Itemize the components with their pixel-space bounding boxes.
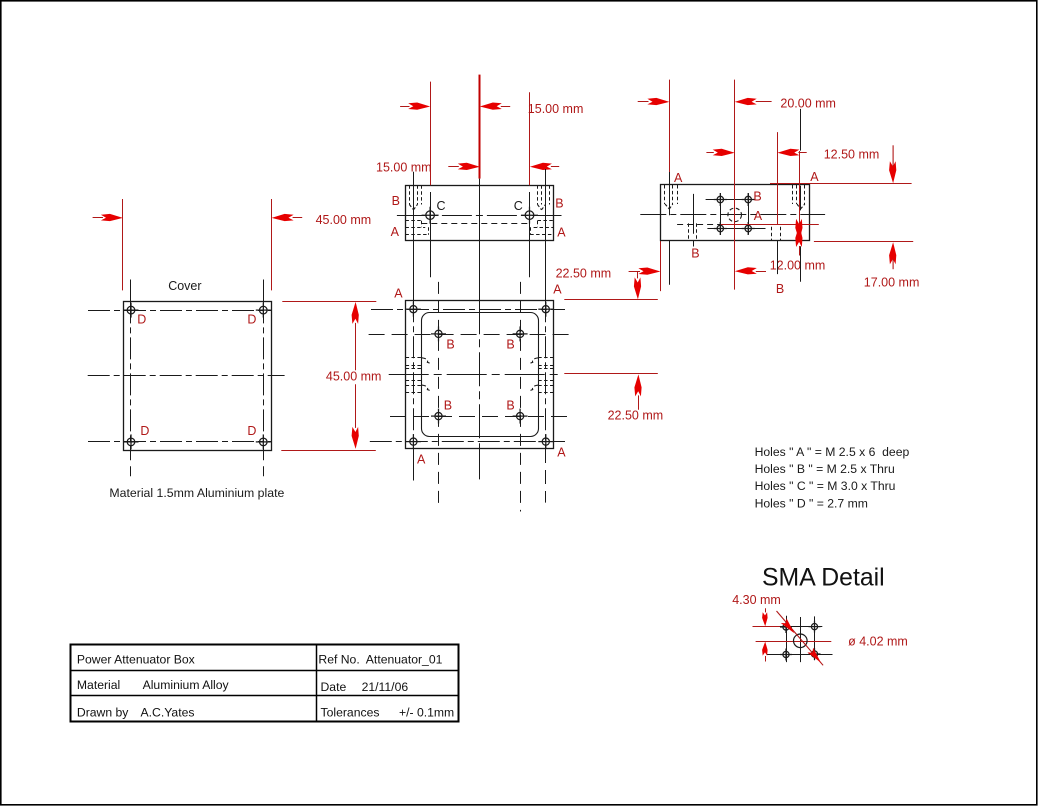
cover width dim line + arrows	[93, 217, 103, 219]
svg-text:12.50 mm: 12.50 mm	[824, 148, 880, 162]
svg-text:Aluminium Alloy: Aluminium Alloy	[143, 678, 230, 692]
projection line centre column	[479, 179, 481, 301]
centerline hole B left column	[438, 282, 440, 508]
SMA flange hole top-left	[714, 193, 727, 206]
dim 12.50 line	[706, 152, 713, 154]
svg-text:B: B	[506, 399, 514, 413]
svg-text:D: D	[247, 424, 256, 438]
svg-text:A: A	[391, 225, 400, 239]
svg-text:A: A	[810, 170, 819, 184]
svg-text:Material 1.5mm Aluminium plate: Material 1.5mm Aluminium plate	[109, 486, 284, 500]
arrow up 4.30	[762, 642, 768, 656]
svg-text:45.00 mm: 45.00 mm	[316, 213, 372, 227]
svg-text:22.50 mm: 22.50 mm	[556, 267, 612, 281]
svg-text:D: D	[137, 313, 146, 327]
title block column line	[316, 645, 318, 721]
svg-text:Ref No. Attenuator_01: Ref No. Attenuator_01	[318, 653, 442, 667]
hole A plan bottom-left	[406, 434, 421, 449]
dim 22.50 upper: horizontal line+arrow	[630, 271, 640, 273]
leader line 20.00 text	[800, 109, 802, 151]
SMA detail top row ext line red	[753, 626, 780, 628]
svg-text:A: A	[394, 287, 403, 301]
hole B plan bottom-right	[513, 409, 528, 424]
cover horizontal centerline mid	[88, 375, 285, 377]
svg-text:Holes " A " = M 2.5 x 6 deep: Holes " A " = M 2.5 x 6 deep	[755, 445, 910, 459]
svg-text:B: B	[444, 399, 452, 413]
svg-text:D: D	[140, 424, 149, 438]
svg-text:A: A	[557, 226, 566, 240]
SMA flange hole bottom-left	[714, 222, 727, 235]
svg-text:Holes " B " = M 2.5 x Thru: Holes " B " = M 2.5 x Thru	[755, 462, 895, 476]
svg-text:Power Attenuator Box: Power Attenuator Box	[77, 653, 195, 667]
svg-text:C: C	[514, 199, 523, 213]
svg-text:A: A	[417, 453, 426, 467]
svg-text:45.00 mm: 45.00 mm	[326, 369, 382, 383]
arrow up to hole row line	[795, 225, 802, 247]
projection lines below side view	[669, 241, 671, 285]
svg-text:Material: Material	[77, 678, 120, 692]
front view hidden tapped hole top-left	[409, 185, 411, 204]
svg-text:Drawn by: Drawn by	[77, 706, 129, 720]
svg-text:B: B	[776, 282, 784, 296]
centerline hole B right column	[520, 282, 522, 512]
hole B plan top-left	[431, 326, 446, 341]
arrow up to centreline ext	[634, 374, 641, 396]
svg-text:Holes " D " = 2.7 mm: Holes " D " = 2.7 mm	[755, 496, 868, 510]
hole A plan top-right	[538, 302, 553, 317]
cover width dim extension lines	[122, 199, 124, 290]
hole B centerline left	[693, 194, 695, 234]
side view box outline	[661, 185, 810, 241]
title block row line 2	[71, 695, 459, 697]
svg-text:Cover: Cover	[168, 279, 201, 293]
svg-text:Holes " C " = M 3.0 x Thru: Holes " C " = M 3.0 x Thru	[755, 479, 896, 493]
hole row centerline top (cover+plan)	[88, 310, 271, 312]
plan height dim top extension line	[282, 301, 376, 303]
side hidden cavity line	[677, 224, 768, 226]
arrow up end 45.00 vertical	[352, 302, 359, 324]
ext line hole C right	[529, 92, 531, 185]
SMA detail centre line red	[756, 641, 832, 643]
ext line hole column right	[777, 132, 779, 224]
SMA diameter leader diagonal	[777, 611, 824, 665]
hole centerline left	[669, 172, 671, 216]
front view box outline	[406, 186, 554, 241]
title block row line 1	[71, 670, 459, 672]
plan height dim bottom extension line	[281, 450, 376, 452]
SMA detail hole top-left	[780, 621, 792, 633]
svg-text:17.00 mm: 17.00 mm	[864, 275, 920, 289]
svg-text:SMA Detail: SMA Detail	[762, 565, 885, 592]
projection line hole A right column	[545, 169, 547, 300]
svg-text:ø 4.02 mm: ø 4.02 mm	[848, 635, 908, 649]
plan hidden SMA features left wall	[406, 357, 422, 359]
dim 22.50 left arrow line	[629, 271, 640, 273]
dim 15.00 upper line	[400, 106, 409, 108]
plan B row centerline top	[369, 334, 573, 336]
arrow down to plan top ext	[634, 277, 641, 299]
SMA detail hole bottom-right	[809, 648, 821, 660]
SMA detail hole bottom-left	[780, 649, 792, 661]
ext line SMA centre column	[734, 80, 736, 290]
hole row centerline bottom (cover+plan)	[88, 441, 271, 443]
front view hidden SMA bore left	[405, 220, 421, 222]
svg-text:Tolerances: Tolerances	[321, 706, 380, 720]
svg-text:20.00 mm: 20.00 mm	[780, 97, 836, 111]
SMA detail flange cross lines	[779, 626, 822, 628]
arrow down to side bottom	[795, 219, 802, 241]
title block outer frame	[71, 645, 459, 722]
side hole row extension line	[721, 224, 819, 226]
front view hidden SMA bore right	[538, 220, 554, 222]
cover vertical centerline right	[263, 280, 265, 302]
svg-text:15.00 mm: 15.00 mm	[528, 102, 584, 116]
plan B row centerline bottom	[390, 416, 573, 418]
side hidden holes bottom-left	[688, 223, 690, 240]
hole D top-right	[256, 303, 271, 318]
arrow down 4.30	[762, 612, 768, 626]
svg-text:B: B	[753, 189, 761, 203]
hole A plan bottom-right	[538, 434, 553, 449]
svg-text:A: A	[553, 283, 562, 297]
svg-text:C: C	[437, 199, 446, 213]
svg-text:B: B	[446, 337, 454, 351]
plan view cavity rounded outline	[422, 313, 539, 437]
svg-text:12.00 mm: 12.00 mm	[770, 258, 826, 272]
side hidden holes bottom-right	[771, 227, 773, 241]
SMA flange hole top-right	[742, 193, 755, 206]
svg-text:Date: Date	[321, 680, 347, 694]
ext line centre (thick)	[479, 75, 481, 179]
hole B plan top-right	[513, 326, 528, 341]
cover vertical centerline left	[130, 280, 132, 302]
side SMA flange holes connecting lines	[706, 199, 755, 201]
arrow down to side top edge	[889, 161, 896, 183]
hole A plan top-left	[406, 302, 421, 317]
dim 15.00 lower line	[448, 166, 459, 168]
hole D bottom-left	[124, 434, 139, 449]
svg-text:4.30 mm: 4.30 mm	[732, 593, 781, 607]
svg-text:B: B	[691, 246, 699, 260]
hole centerline right	[800, 186, 802, 211]
plan view outer outline	[406, 301, 554, 449]
SMA detail hole top-right	[809, 621, 821, 633]
svg-text:+/- 0.1mm: +/- 0.1mm	[399, 706, 454, 720]
plan hidden SMA features right wall	[538, 357, 553, 359]
side hidden tapped hole left	[664, 185, 666, 204]
ext line red inner right	[799, 151, 801, 225]
svg-text:15.00 mm: 15.00 mm	[376, 160, 432, 174]
plan hole row centerline bottom right part	[370, 441, 565, 443]
hole D top-left	[124, 303, 139, 318]
cover plate outline	[124, 302, 272, 451]
side top edge extension line	[770, 183, 912, 185]
svg-text:B: B	[555, 197, 563, 211]
svg-text:B: B	[506, 337, 514, 351]
svg-text:A: A	[754, 209, 763, 223]
svg-text:A: A	[557, 446, 566, 460]
SMA detail centre circle	[794, 634, 808, 648]
hole C left	[422, 207, 439, 224]
projection line hole C left column	[430, 192, 432, 277]
front view hidden tapped hole top-right	[537, 185, 539, 204]
svg-text:A.C.Yates: A.C.Yates	[141, 705, 195, 719]
hole D bottom-right	[256, 434, 271, 449]
arrow down end 45.00 vertical	[352, 427, 359, 449]
svg-text:21/11/06: 21/11/06	[362, 680, 409, 694]
SMA flange hole bottom-right	[742, 222, 755, 235]
dim 12.00 line	[735, 267, 757, 274]
SMA centre hole hidden circle	[728, 208, 742, 222]
side hidden tapped hole right	[792, 185, 794, 204]
projection line hole C right column	[529, 192, 531, 277]
plan top edge extension line	[564, 299, 658, 301]
svg-text:22.50 mm: 22.50 mm	[608, 409, 664, 423]
ext line hole C left	[430, 82, 432, 186]
hole B plan bottom-left	[431, 409, 446, 424]
arrow up to side bottom edge	[889, 242, 896, 264]
plan horizontal centerline	[389, 374, 561, 376]
front view horizontal centerline	[397, 215, 562, 217]
svg-text:D: D	[247, 313, 256, 327]
dim 22.50 upper: ext vertical line	[660, 184, 662, 291]
svg-text:B: B	[392, 194, 400, 208]
svg-text:A: A	[674, 171, 683, 185]
side bottom edge extension line	[814, 241, 913, 243]
plan hole row centerline top right part	[371, 309, 565, 311]
ext line side left edge	[669, 80, 671, 172]
hole C right	[521, 207, 538, 224]
plan centreline extension line red	[564, 373, 658, 375]
front view hidden cavity floor line	[421, 223, 531, 225]
projection line hole A left column	[413, 172, 415, 301]
side view horizontal centerline	[640, 214, 825, 216]
dim 20.00 line	[638, 101, 649, 103]
